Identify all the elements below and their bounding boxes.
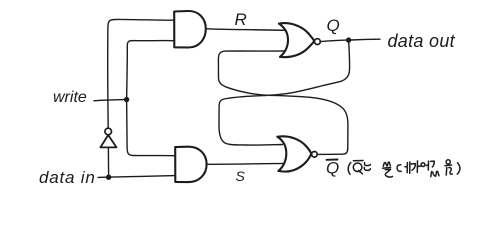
wire Q to data out: [351, 38, 380, 41]
svg-text:write: write: [53, 89, 87, 106]
node Q junction: [346, 37, 351, 42]
wire data in to inverter input: [107, 148, 109, 178]
NOR gate top output bubble: [315, 39, 321, 45]
eops: [421, 163, 425, 167]
eum: [446, 160, 450, 164]
wire S: bottom AND output to bottom NOR lower input: [207, 162, 284, 165]
wire write lead: [94, 100, 124, 101]
inverter triangle: [100, 135, 116, 147]
annotation Korean note: [348, 160, 460, 177]
svg-text:Q: Q: [327, 16, 340, 35]
paren open: [348, 163, 351, 175]
sseul: [383, 163, 384, 167]
wire Q-bar feedback to top NOR lower input: [218, 51, 348, 154]
NOR gate top: [279, 23, 314, 57]
AND gate bottom: [175, 147, 206, 182]
wire top NOR output to node Q: [320, 40, 346, 41]
NOR gate bottom: [277, 136, 311, 171]
de: [397, 165, 401, 172]
node write junction: [124, 97, 129, 102]
Q-bar small: [353, 160, 363, 162]
inverter bubble: [105, 128, 112, 135]
wire write to top AND lower input: [127, 41, 174, 100]
wire inverter output to top AND upper input: [108, 19, 174, 128]
AND gate top: [174, 11, 206, 48]
wire R: top AND output to top NOR upper input: [206, 29, 285, 31]
wire write to bottom AND upper input: [127, 100, 175, 156]
ga: [411, 164, 415, 171]
wire data in lead: [98, 176, 106, 178]
NOR gate bottom output bubble: [312, 152, 318, 158]
wire Q feedback to bottom NOR upper input: [219, 40, 350, 145]
svg-text:data in: data in: [39, 168, 96, 187]
label Q-bar: [326, 159, 339, 178]
svg-text:data out: data out: [388, 31, 456, 51]
node data in junction: [106, 175, 111, 180]
svg-text:S: S: [236, 168, 246, 184]
wire data in to bottom AND lower input: [111, 176, 175, 178]
svg-text:R: R: [235, 10, 247, 29]
paren close: [457, 163, 460, 174]
neun: [364, 163, 370, 166]
svg-text:Q: Q: [326, 159, 339, 178]
